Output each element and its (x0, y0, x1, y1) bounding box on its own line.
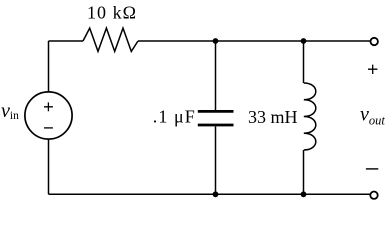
resistor R 10 kΩ (zigzag) (83, 28, 138, 51)
wire capacitor bottom lead (215, 126, 217, 194)
output terminal top (open circle) (371, 38, 378, 45)
svg-text:.1 μF: .1 μF (153, 106, 195, 126)
output polarity plus (368, 65, 377, 74)
output polarity minus (366, 168, 378, 170)
source plus symbol (44, 102, 53, 111)
junction node inductor-top (301, 38, 307, 44)
wire inductor bottom lead (303, 150, 305, 194)
source minus symbol (44, 127, 53, 129)
output terminal bottom (open circle) (370, 192, 377, 199)
svg-text:vout: vout (360, 104, 385, 128)
svg-text:10 kΩ: 10 kΩ (87, 3, 136, 23)
wire bottom-left vertical (source bottom to bottom rail) (48, 139, 50, 194)
wire top rail left segment (49, 40, 84, 42)
wire inductor top lead (303, 41, 305, 83)
wire capacitor top lead (215, 41, 217, 110)
svg-text:vin: vin (1, 100, 19, 122)
wire top-left vertical (source top to top rail) (48, 41, 50, 92)
voltage source circle v_in (25, 92, 72, 139)
svg-text:33 mH: 33 mH (248, 107, 298, 127)
inductor L coil (4 loops) (304, 83, 316, 150)
wire top rail right segment (138, 40, 370, 42)
junction node capacitor-top (213, 38, 219, 44)
capacitor C plates (198, 111, 234, 125)
junction node capacitor-bottom (213, 191, 219, 197)
wire bottom rail (49, 193, 371, 195)
junction node inductor-bottom (301, 191, 307, 197)
